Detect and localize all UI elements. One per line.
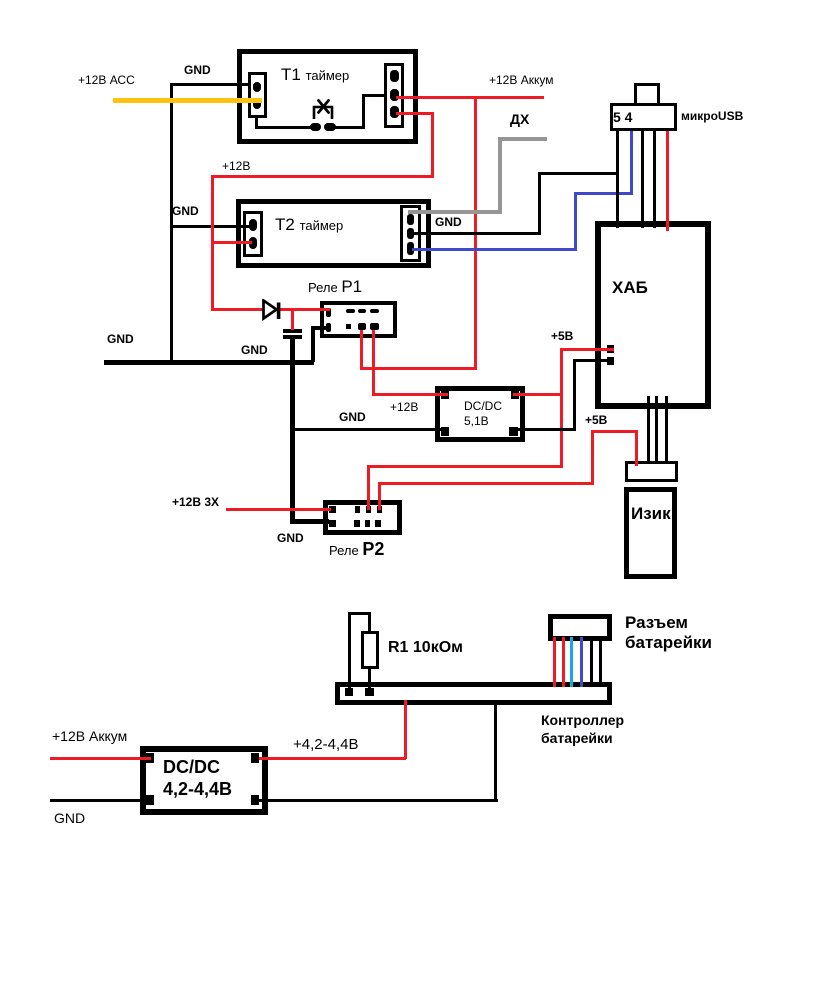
wire battery red 2 <box>562 637 565 687</box>
pin P2 left 2 <box>329 520 336 527</box>
label +12V ACC <box>78 74 135 86</box>
label controller <box>541 712 624 747</box>
wire black GND to P2 <box>290 519 329 524</box>
label R1 10kOm <box>388 640 463 656</box>
pin T2 right 3 <box>407 242 414 255</box>
wire black bar down <box>494 700 497 801</box>
converter DC/DC 4,2-4,4 box <box>140 746 268 815</box>
hub box <box>595 221 711 409</box>
controller bar box <box>335 682 612 705</box>
wire red branch to T2 <box>211 241 252 244</box>
label GND (top) <box>184 64 211 76</box>
pin T1 left 1 <box>253 82 261 92</box>
connector T2 left <box>243 211 263 257</box>
wire red +5V to P2 <box>367 465 563 468</box>
wire red bar down <box>404 700 407 759</box>
resistor R1 leads <box>348 612 351 692</box>
resistor R1 body <box>361 631 379 669</box>
wire blue from T2 right to USB <box>412 248 577 251</box>
label T1 таймер <box>281 66 349 83</box>
pin T1 right 2 <box>390 89 399 101</box>
connector microUSB body <box>610 103 677 131</box>
pin DCDC2 RT <box>251 753 259 763</box>
wire T1 internal left <box>255 115 258 129</box>
wire battery black 2 <box>599 637 602 687</box>
label Izik <box>631 505 671 522</box>
pin HUB left 2 <box>607 357 614 365</box>
pin P2 left 1 <box>329 506 336 513</box>
pin DCDC1 LB <box>441 427 449 436</box>
pin T2 right 2 <box>407 228 414 239</box>
izik box <box>624 487 677 579</box>
wire GND into T2 <box>170 225 250 228</box>
wire red battery horizontal <box>396 96 544 99</box>
capacitor C1 <box>283 329 302 333</box>
wire black capacitor to P2 vertical <box>290 339 295 524</box>
connector T2 right <box>400 205 421 262</box>
wire black GND to DC/DC <box>294 428 446 431</box>
timer T2 box <box>236 199 431 268</box>
wire red +5V to HUB <box>560 348 614 351</box>
wire battery red 1 <box>553 637 556 687</box>
wire battery cyan <box>570 637 573 687</box>
wire black GND bottom right <box>259 799 498 802</box>
wire USB red <box>666 131 669 231</box>
label GND (P2) <box>277 532 304 544</box>
diode D1 <box>262 299 282 321</box>
pin P2 top row <box>355 506 360 513</box>
wire red diode to P1 <box>280 308 330 311</box>
wire black GND from T2 right to USB <box>413 232 540 235</box>
pin DCDC1 RT <box>511 391 519 399</box>
label +12V (DC/DC in) <box>390 401 418 413</box>
wire red P1 pin to DC/DC <box>372 330 375 396</box>
connector T1 right <box>384 63 404 128</box>
label +12V <box>222 160 250 172</box>
wire black P1 to GND <box>311 326 328 330</box>
pin T2 right 1 <box>407 214 414 225</box>
wire USB black 2 <box>641 131 644 228</box>
wire red to diode <box>211 308 264 311</box>
relay P2 box <box>323 500 402 535</box>
label Rele P2 <box>329 540 384 558</box>
label DC/DC 5,1V <box>464 399 502 429</box>
label T2 таймер <box>275 216 343 233</box>
wire GND bottom bus horizontal <box>104 360 314 365</box>
wire red T1 out <box>396 112 434 115</box>
label DH <box>510 112 529 126</box>
pin R1 a <box>345 688 353 696</box>
label microUSB <box>681 110 743 122</box>
label DC/DC 4,2-4,4V <box>163 757 232 801</box>
label +12V Akkum (bottom) <box>52 729 127 743</box>
label +12V Akkum <box>489 74 553 86</box>
wire red +12V 3X <box>226 508 331 511</box>
wire GND main vertical bus <box>170 83 173 362</box>
label +4,2-4,4V <box>293 737 358 752</box>
connector T1 left <box>248 72 267 118</box>
switch S1 symbol <box>308 96 336 124</box>
wire T1 internal right <box>334 126 365 129</box>
pin DCDC1 RB <box>509 427 518 436</box>
wire red +5V vertical <box>560 348 563 467</box>
label GND (T2 right) <box>435 216 462 228</box>
connector izik <box>625 461 678 482</box>
relay P1 box <box>320 301 397 338</box>
wire red to capacitor <box>291 308 294 330</box>
connector microUSB top <box>634 83 660 106</box>
pin T2 left 1 <box>249 219 257 231</box>
switch S1 contact dots <box>310 123 321 131</box>
label +5V (2) <box>585 414 607 426</box>
pin DCDC1 LT <box>441 391 449 399</box>
label GND (bottom left) <box>107 333 134 345</box>
pin P1 bottom row <box>346 324 351 329</box>
converter DC/DC 5.1V box <box>435 386 525 442</box>
pin P2 bottom row <box>354 520 360 527</box>
label +5V <box>551 330 573 342</box>
label battery plug <box>625 613 712 653</box>
label GND (capacitor) <box>241 344 268 356</box>
label GND (DC/DC in) <box>339 411 366 423</box>
label +12V 3X <box>172 496 219 508</box>
wire red DC/DC out <box>513 393 563 396</box>
wire red battery to relay P1 <box>361 367 477 370</box>
label GND (T2 input) <box>172 205 199 217</box>
wire battery black 1 <box>590 637 593 687</box>
battery connector box <box>548 614 612 641</box>
timer T1 box <box>237 49 418 144</box>
pin DCDC2 LB <box>146 795 154 805</box>
pin T1 left 2 <box>253 99 261 109</box>
pin R1 b <box>365 688 374 696</box>
label 5 4 <box>613 110 632 124</box>
pin P1 left 1 <box>326 308 331 317</box>
wire black DC/DC to HUB <box>512 428 576 431</box>
wire red relay P1 pin drop <box>360 330 363 370</box>
wire USB black 1 <box>616 131 619 228</box>
label GND (bottom) <box>54 811 85 825</box>
pin DCDC2 LT <box>146 753 154 763</box>
wire red +4,2V <box>259 757 406 760</box>
wire red +5V izik <box>378 482 381 510</box>
label Rele P1 <box>308 278 362 295</box>
wire battery blue <box>580 637 583 687</box>
wire black GND bottom left <box>50 799 146 802</box>
pin HUB left 1 <box>607 345 614 353</box>
pin T1 right 3 <box>390 106 399 118</box>
pin DCDC2 RB <box>251 795 259 805</box>
wire red +12V akkum bottom <box>50 757 151 760</box>
wire USB black 3 <box>653 131 656 228</box>
pin P1 top row <box>346 309 355 313</box>
wire gray from T2 <box>408 210 502 214</box>
wires hub to izik <box>647 396 650 462</box>
wire +12V ACC yellow <box>113 98 262 103</box>
pin P1 left 2 <box>326 323 331 332</box>
pin T2 left 2 <box>249 237 257 249</box>
pin T1 right 1 <box>390 70 399 82</box>
wire red battery vertical <box>474 96 477 370</box>
label HUB <box>612 279 648 296</box>
wire GND horizontal into T1 <box>170 83 250 86</box>
